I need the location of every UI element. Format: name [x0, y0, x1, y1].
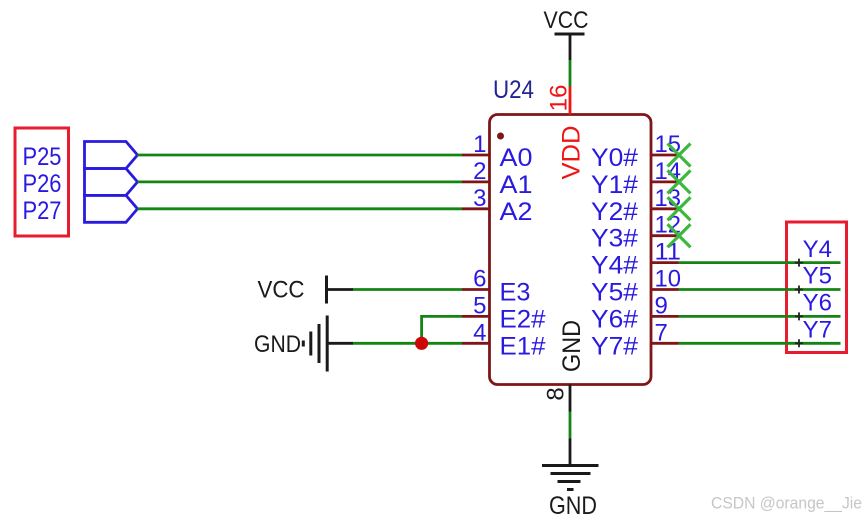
- svg-text:Y3#: Y3#: [591, 225, 638, 253]
- svg-text:Y4#: Y4#: [591, 252, 638, 280]
- svg-text:A1: A1: [500, 171, 533, 199]
- left label box: [15, 128, 69, 236]
- wire GND to pin 4: [353, 342, 462, 345]
- svg-text:U24: U24: [493, 76, 534, 104]
- wire pin 11 to Y4: [679, 261, 841, 264]
- svg-text:6: 6: [473, 266, 486, 293]
- svg-text:1: 1: [473, 131, 486, 158]
- svg-text:P26: P26: [23, 170, 62, 198]
- svg-text:8: 8: [543, 387, 570, 400]
- right label box: [787, 222, 847, 353]
- svg-text:Y6#: Y6#: [591, 305, 638, 333]
- svg-text:Y1#: Y1#: [591, 171, 638, 199]
- pin 8 (GND): [543, 385, 571, 412]
- pin 14 (Y1#): [591, 158, 681, 199]
- svg-text:3: 3: [473, 185, 486, 212]
- global label flag P26: [85, 169, 138, 196]
- pin 6 (E3): [462, 266, 531, 307]
- pin 15 (Y0#): [591, 131, 681, 172]
- svg-text:VDD: VDD: [558, 126, 586, 180]
- pin 4 (E1#): [462, 319, 546, 360]
- junction dot: [415, 337, 428, 350]
- no-connect X on pin 13: [668, 197, 691, 220]
- svg-text:Y7#: Y7#: [591, 332, 638, 360]
- VCC power symbol (left): [258, 276, 354, 304]
- pin name GND (inside IC): [558, 320, 586, 372]
- no-connect X on pin 12: [668, 224, 691, 247]
- svg-text:VCC: VCC: [544, 7, 589, 34]
- svg-text:5: 5: [473, 292, 486, 319]
- wire pin 9 to Y6: [679, 315, 841, 318]
- net label P25: [23, 143, 62, 171]
- svg-text:Y4: Y4: [803, 236, 832, 263]
- svg-text:4: 4: [473, 319, 486, 346]
- VCC power symbol (top): [544, 7, 589, 60]
- wire anchor mark Y4: [795, 259, 803, 267]
- wire P27 to pin 3: [138, 207, 463, 210]
- wire pin 8 to GND: [569, 412, 572, 439]
- wire anchor mark Y7: [795, 339, 803, 347]
- net label P26: [23, 170, 62, 198]
- svg-text:2: 2: [473, 158, 486, 185]
- wire pin 7 to Y7: [679, 342, 841, 345]
- pin 16 (VDD): [546, 85, 573, 115]
- pin 2 (A1): [462, 158, 533, 199]
- GND power symbol (left): [254, 316, 353, 372]
- global label flag P27: [85, 195, 138, 222]
- svg-text:E1#: E1#: [500, 332, 546, 360]
- svg-text:CSDN @orange__Jie: CSDN @orange__Jie: [711, 494, 862, 513]
- svg-text:Y0#: Y0#: [591, 144, 638, 172]
- no-connect X on pin 15: [668, 144, 691, 167]
- pin 10 (Y5#): [591, 266, 681, 307]
- wire P25 to pin 1: [138, 154, 463, 157]
- net label P27: [23, 197, 62, 225]
- net label Y5: [803, 263, 832, 290]
- net label Y7: [803, 317, 832, 344]
- svg-text:VCC: VCC: [258, 277, 305, 304]
- pin name VDD: [558, 126, 586, 180]
- wire anchor mark Y6: [795, 312, 803, 320]
- svg-text:GND: GND: [558, 320, 586, 372]
- pin 12 (Y3#): [591, 212, 681, 253]
- svg-text:Y6: Y6: [803, 290, 832, 317]
- pin 13 (Y2#): [591, 185, 681, 226]
- wire pin 10 to Y5: [679, 288, 841, 291]
- svg-text:9: 9: [655, 292, 668, 319]
- watermark: [711, 494, 862, 513]
- svg-text:11: 11: [655, 239, 682, 266]
- wire P26 to pin 2: [138, 180, 463, 183]
- svg-text:A0: A0: [500, 144, 533, 172]
- svg-text:P27: P27: [23, 197, 62, 225]
- pin 1 (A0): [462, 131, 533, 172]
- IC U24 body: [490, 115, 652, 385]
- pin 11 (Y4#): [591, 239, 681, 280]
- svg-text:Y2#: Y2#: [591, 198, 638, 226]
- svg-text:GND: GND: [254, 331, 301, 358]
- pin 7 (Y7#): [591, 319, 679, 360]
- pin 9 (Y6#): [591, 292, 679, 333]
- svg-text:Y7: Y7: [803, 317, 832, 344]
- GND power symbol (bottom): [542, 439, 599, 519]
- svg-text:16: 16: [546, 85, 573, 112]
- wire VCC to pin 16: [569, 60, 572, 87]
- svg-text:Y5#: Y5#: [591, 279, 638, 307]
- svg-text:GND: GND: [549, 492, 597, 519]
- svg-text:7: 7: [655, 319, 668, 346]
- pin 5 (E2#): [462, 292, 546, 333]
- wire junction to pin 5: [422, 316, 462, 343]
- global label flag P25: [85, 142, 138, 169]
- svg-text:P25: P25: [23, 143, 62, 171]
- reference designator U24: [493, 76, 534, 104]
- wire anchor mark Y5: [795, 286, 803, 294]
- no-connect X on pin 14: [668, 170, 691, 193]
- net label Y6: [803, 290, 832, 317]
- pin-1 indicator dot: [497, 133, 504, 140]
- svg-text:10: 10: [655, 266, 682, 293]
- wire VCC to pin 6: [353, 288, 462, 291]
- pin 3 (A2): [462, 185, 533, 226]
- svg-text:A2: A2: [500, 198, 533, 226]
- svg-text:E3: E3: [500, 279, 531, 307]
- svg-text:Y5: Y5: [803, 263, 832, 290]
- svg-text:E2#: E2#: [500, 305, 546, 333]
- net label Y4: [803, 236, 832, 263]
